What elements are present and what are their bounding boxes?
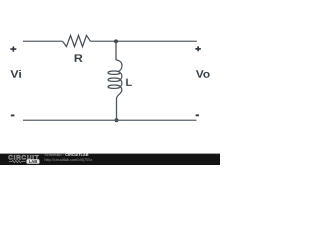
node junction top [114, 39, 118, 43]
svg-text:Schematic : CIRCUITLAB: Schematic : CIRCUITLAB [44, 153, 88, 157]
inductor label L [126, 79, 132, 86]
wire top-left (Vi+ to resistor) [23, 40, 63, 42]
inductor L bottom lead [116, 98, 118, 120]
node label Vi [10, 70, 21, 78]
resistor R [63, 35, 91, 46]
terminal - right [196, 114, 199, 116]
resistor label R [75, 54, 83, 62]
watermark logo squiggle [9, 160, 26, 162]
terminal - left [11, 115, 15, 117]
inductor L coil [108, 60, 122, 98]
svg-text:http://circuitlab.com/c/6j755x: http://circuitlab.com/c/6j755x [44, 158, 92, 162]
watermark logo LAB box [27, 159, 40, 164]
wire top-right (resistor to Vo+) [91, 40, 197, 42]
terminal + right [195, 46, 201, 51]
watermark bar [0, 154, 220, 165]
node label Vo [196, 70, 210, 78]
svg-text:LAB: LAB [29, 159, 38, 164]
wire bottom [23, 119, 196, 121]
terminal + left [10, 46, 16, 51]
inductor L top lead [115, 41, 117, 60]
node junction bottom [115, 118, 119, 122]
